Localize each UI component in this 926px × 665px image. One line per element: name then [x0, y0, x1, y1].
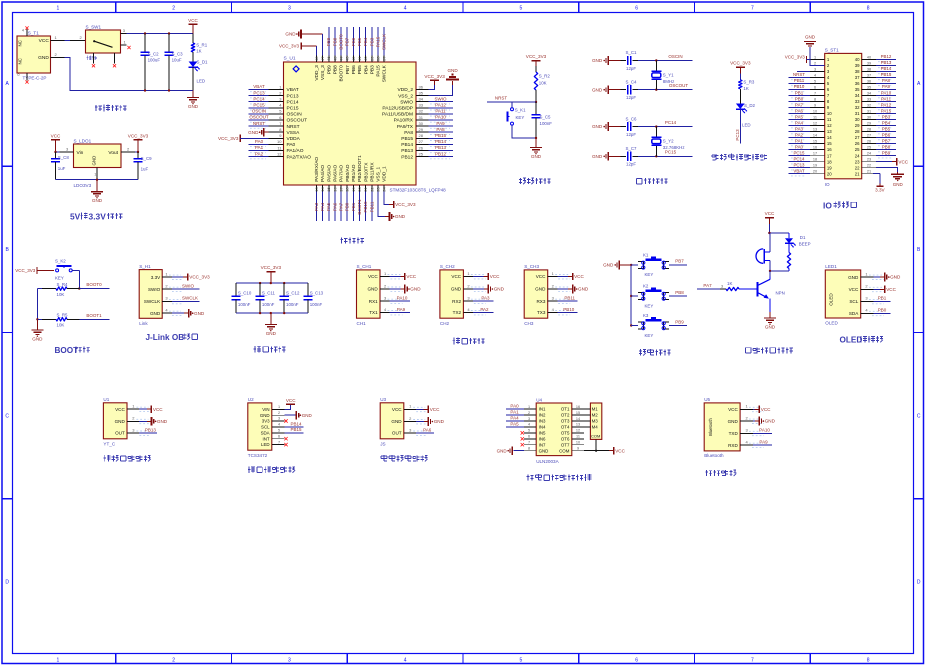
pin 38 of S_ST1 [862, 67, 876, 71]
svg-text:32: 32 [867, 103, 871, 107]
svg-text:OSCIN: OSCIN [287, 112, 303, 118]
svg-text:15: 15 [576, 411, 580, 415]
wire VCC rail top [127, 33, 194, 35]
svg-text:VDD_2: VDD_2 [398, 87, 414, 93]
svg-text:PB11: PB11 [564, 296, 575, 301]
svg-text:VCC_3V3: VCC_3V3 [424, 74, 445, 79]
pin 3 of S_H1 [162, 296, 183, 304]
power VCC of stepper [609, 447, 626, 454]
svg-text:36: 36 [419, 84, 424, 89]
net label PA15 wire at IO pin 31 [876, 108, 896, 116]
svg-text:PA10: PA10 [759, 428, 770, 433]
power VCC_3V3 at VDD_3 [279, 42, 317, 55]
svg-text:OSCOUT: OSCOUT [287, 118, 308, 124]
ground GND of power circuit [187, 91, 199, 110]
svg-text:30: 30 [419, 121, 424, 126]
title 颜色检测模块 [248, 466, 295, 473]
svg-text:18: 18 [827, 159, 832, 164]
ground GND of reset circuit [530, 138, 542, 159]
svg-text:PB6: PB6 [351, 37, 356, 46]
svg-text:PA15: PA15 [375, 36, 380, 47]
pin 12 OT5 of U4 [572, 429, 584, 433]
svg-text:VCC: VCC [188, 18, 198, 23]
power VCC of S_CH2 [473, 273, 500, 280]
capacitor S_C9 1uF [133, 152, 152, 180]
capacitor S_C10 100nF [232, 283, 252, 313]
svg-text:C: C [5, 413, 9, 419]
svg-text:PA4: PA4 [320, 202, 325, 211]
svg-text:6: 6 [814, 85, 816, 89]
pin 20 of S_ST1 [810, 170, 825, 174]
net label PB6 wire [351, 27, 356, 56]
svg-text:S_R2: S_R2 [539, 74, 551, 79]
net label PB10 wire of S_CH3 [557, 307, 577, 313]
pin 8 of S_ST1 [810, 97, 825, 101]
svg-text:S_K1: S_K1 [515, 107, 526, 112]
svg-text:16: 16 [827, 147, 832, 152]
pin 2 of S_CH1 [380, 283, 403, 291]
svg-text:32: 32 [855, 105, 860, 110]
svg-text:11: 11 [813, 115, 817, 119]
pin 37 SWCLK of U1 [382, 56, 387, 63]
svg-text:PB6: PB6 [351, 65, 357, 74]
svg-text:OUT: OUT [115, 431, 125, 436]
pin 5 of S_ST1 [810, 79, 825, 83]
pin 17 PA7/AO of U1 [339, 185, 344, 192]
svg-text:GND: GND [115, 419, 126, 424]
svg-text:TYPE-C-2P: TYPE-C-2P [23, 76, 47, 81]
svg-text:GND: GND [92, 198, 103, 203]
pin 21 of S_ST1 [862, 170, 876, 174]
net label PA2 wire of S_CH2 [473, 307, 493, 313]
svg-text:48: 48 [314, 56, 319, 61]
svg-text:31: 31 [419, 115, 424, 120]
pin 22 of S_ST1 [862, 164, 876, 168]
svg-text:SWIO: SWIO [148, 287, 161, 292]
no-connect X on U4 pin 6 [521, 437, 524, 440]
svg-text:BOOT1: BOOT1 [86, 313, 102, 318]
svg-text:33: 33 [867, 97, 871, 101]
net label PB1 wire at IO pin 7 [789, 90, 811, 98]
svg-text:PA10: PA10 [435, 115, 446, 120]
svg-text:5: 5 [528, 429, 530, 433]
net label PA3 wire [314, 192, 319, 222]
svg-text:19: 19 [813, 164, 817, 168]
svg-text:PB14: PB14 [435, 139, 447, 144]
svg-text:OUT: OUT [392, 431, 402, 436]
svg-text:3: 3 [528, 417, 530, 421]
svg-text:PB8: PB8 [882, 144, 891, 149]
power VCC of S_CH3 [557, 273, 584, 280]
svg-text:U3: U3 [380, 397, 386, 402]
wire filter top rail [236, 282, 308, 284]
svg-text:PA6: PA6 [423, 427, 432, 432]
svg-text:OSCOUT: OSCOUT [249, 115, 269, 120]
svg-text:IO: IO [825, 182, 830, 187]
svg-text:PA12: PA12 [435, 103, 446, 108]
net label PA4 wire [320, 192, 325, 222]
net label PB14 wire [428, 139, 453, 147]
no-connect X on U2 pin 6 [284, 437, 287, 440]
svg-text:BEEP: BEEP [799, 242, 811, 247]
svg-text:D: D [5, 580, 9, 586]
svg-text:1uF: 1uF [141, 167, 149, 172]
svg-text:KEY: KEY [645, 333, 654, 338]
svg-text:GND: GND [890, 275, 901, 280]
svg-text:PB15: PB15 [290, 427, 302, 432]
junction reset bottom [535, 137, 537, 139]
svg-text:GND: GND [765, 325, 776, 330]
svg-text:PB9: PB9 [882, 150, 891, 155]
svg-text:10uF: 10uF [172, 57, 182, 62]
svg-text:18: 18 [813, 158, 817, 162]
pin 4 of OLED [861, 308, 884, 316]
svg-text:INT: INT [263, 436, 270, 441]
svg-text:44: 44 [339, 56, 344, 61]
svg-text:VCC: VCC [574, 274, 584, 279]
resistor R base 1K [720, 281, 758, 291]
svg-text:13: 13 [827, 129, 832, 134]
pin 6 of U2 [272, 434, 285, 438]
svg-text:GND: GND [592, 154, 603, 159]
module U1 body [103, 397, 127, 446]
svg-text:34: 34 [419, 97, 424, 102]
svg-text:VCC: VCC [406, 274, 416, 279]
pin 45 PB8 of U1 [332, 56, 337, 63]
power VCC of U5 [753, 406, 771, 413]
svg-text:10: 10 [277, 139, 282, 144]
net label PB7 wire at IO pin 26 [876, 138, 896, 146]
net label PA9 wire at IO pin 35 [876, 84, 896, 92]
svg-text:VIN: VIN [262, 407, 269, 412]
svg-text:40: 40 [867, 55, 871, 59]
svg-text:3.3V: 3.3V [89, 212, 107, 222]
svg-text:22: 22 [855, 165, 860, 170]
net label OSCIN wire [638, 54, 692, 62]
net label PA9 wire of S_CH1 [390, 307, 410, 313]
svg-text:VSS_3: VSS_3 [320, 65, 326, 80]
svg-text:29: 29 [419, 127, 424, 132]
svg-text:S_CH1: S_CH1 [357, 264, 372, 269]
svg-text:PB14: PB14 [401, 142, 413, 148]
svg-text:NC: NC [18, 40, 23, 46]
svg-text:GND: GND [38, 55, 49, 61]
svg-text:S_LDO1: S_LDO1 [74, 138, 92, 143]
svg-text:PB15: PB15 [401, 136, 413, 142]
svg-text:U4: U4 [536, 397, 542, 402]
svg-text:PB5: PB5 [357, 37, 362, 46]
svg-text:PB9: PB9 [326, 65, 332, 74]
net label PB11 wire at IO pin 5 [789, 78, 811, 86]
svg-text:32.768KHz: 32.768KHz [663, 145, 685, 150]
svg-text:S_Y2: S_Y2 [663, 138, 674, 143]
pin 3 of U5 [740, 428, 764, 436]
svg-text:12pF: 12pF [626, 66, 636, 71]
header S_ST1 IO port body [825, 48, 862, 187]
pin 9 COM of U4 [572, 447, 584, 451]
junction on VCC rail at C3 [168, 32, 170, 34]
pin 2 of U3 [404, 416, 427, 424]
svg-text:PB5: PB5 [882, 126, 891, 131]
net label PB7 wire of K1 [669, 259, 687, 265]
svg-text:PA6/AO: PA6/AO [333, 165, 339, 182]
svg-text:PB7: PB7 [675, 259, 684, 264]
svg-text:PA6: PA6 [795, 108, 804, 113]
resistor S_R4 10K [42, 282, 79, 297]
svg-text:PA1: PA1 [795, 138, 804, 143]
svg-text:GND: GND [578, 287, 589, 292]
svg-text:PA12: PA12 [881, 102, 892, 107]
svg-text:YT_C: YT_C [103, 441, 115, 446]
power VCC_3V3 at VDDA pin 9 [218, 135, 269, 142]
capacitor S_C11 100nF [256, 283, 276, 313]
svg-text:12pF: 12pF [626, 95, 636, 100]
svg-text:PC14: PC14 [794, 156, 806, 161]
pin 2 GND of S_T1 [51, 52, 65, 58]
ground GND at VSSA pin 8 [248, 128, 268, 137]
svg-text:LED1: LED1 [825, 264, 837, 269]
svg-text:26: 26 [867, 139, 871, 143]
net label PB8 wire [332, 27, 337, 56]
wire alarm top rail [768, 224, 789, 234]
pin 2 of OLED [861, 284, 884, 292]
svg-text:39: 39 [855, 63, 860, 68]
svg-text:SWCLK: SWCLK [382, 64, 388, 82]
resistor under LED D1 [787, 243, 790, 271]
svg-text:45: 45 [332, 56, 337, 61]
svg-text:J-Link OB: J-Link OB [146, 333, 185, 342]
svg-text:46: 46 [326, 56, 331, 61]
pin 1 of S_CH3 [548, 271, 571, 279]
net label PB12 wire [428, 151, 453, 159]
svg-text:40: 40 [363, 56, 368, 61]
net label PB13 wire [428, 145, 453, 153]
svg-text:RX1: RX1 [369, 299, 378, 304]
svg-text:S_C3: S_C3 [172, 51, 184, 56]
net label PB9 wire of K3 [669, 319, 687, 325]
ground GND for S_C1 [592, 56, 620, 65]
svg-text:BOOT0: BOOT0 [339, 34, 344, 50]
net label VBAT wire [249, 84, 269, 92]
net label SWCLK wire [172, 296, 200, 302]
key K1 button [638, 252, 669, 277]
pin 14 OT3 of U4 [572, 417, 584, 421]
net label BOOT0 wire [339, 27, 344, 56]
title J-Link OB接口 [146, 333, 198, 342]
no-connect X on S_T1 bottom pin [25, 80, 28, 83]
net label PA11 wire [428, 109, 453, 117]
svg-text:S_R4: S_R4 [57, 282, 69, 287]
pin 43 PB7 of U1 [345, 56, 350, 63]
svg-text:100uF: 100uF [148, 57, 161, 62]
svg-text:NC: NC [18, 58, 23, 64]
net label PA1 wire of U4 [506, 410, 524, 415]
svg-text:S_ST1: S_ST1 [825, 48, 839, 53]
svg-text:PB12: PB12 [881, 54, 892, 59]
svg-text:2: 2 [172, 6, 175, 12]
svg-text:CH3: CH3 [524, 321, 534, 326]
svg-text:38: 38 [867, 67, 871, 71]
pin 12 PA2/TX/AO of U1 [269, 151, 284, 156]
svg-text:20: 20 [813, 170, 817, 174]
wire T1 VCC to SW1 [65, 40, 71, 42]
svg-text:PB7: PB7 [345, 37, 350, 46]
net label PB3 wire [369, 27, 374, 56]
svg-text:OT4: OT4 [561, 425, 570, 430]
svg-text:5V: 5V [70, 212, 81, 222]
power VCC of S_CH1 [390, 273, 417, 280]
svg-text:PA6: PA6 [332, 202, 337, 211]
svg-text:100nF: 100nF [238, 302, 251, 307]
svg-text:4: 4 [22, 29, 24, 33]
net label PB15 wire [428, 133, 453, 141]
svg-text:NRST: NRST [253, 121, 266, 126]
svg-text:PB8: PB8 [333, 65, 339, 74]
svg-text:17: 17 [813, 152, 817, 156]
svg-text:7: 7 [278, 440, 280, 444]
svg-text:2: 2 [528, 411, 530, 415]
svg-text:OT2: OT2 [561, 413, 570, 418]
svg-text:PB3: PB3 [370, 65, 376, 74]
wire VCC to Vin [54, 151, 59, 153]
net label PA9 wire [428, 121, 453, 129]
ground GND of alarm [764, 312, 776, 330]
svg-text:7: 7 [528, 441, 530, 445]
svg-text:27: 27 [419, 139, 424, 144]
svg-text:PB9: PB9 [326, 37, 331, 46]
junction bottom rail at C2 [144, 89, 146, 91]
svg-text:GND: GND [728, 419, 739, 424]
pin 14 PA4/AO of U1 [320, 185, 325, 192]
wire stub IO pin 3 [797, 71, 810, 73]
pin 15 OT2 of U4 [572, 411, 584, 415]
net label PA4 wire at IO pin 12 [789, 120, 811, 128]
svg-text:GND: GND [157, 419, 168, 424]
svg-text:37: 37 [867, 73, 871, 77]
svg-text:GND: GND [805, 34, 816, 39]
svg-text:VCC: VCC [886, 287, 896, 292]
svg-text:PA0: PA0 [287, 142, 296, 148]
svg-text:VCC_3V3: VCC_3V3 [15, 268, 36, 273]
svg-text:2: 2 [278, 411, 280, 415]
pin 1 IN1 of U4 [524, 405, 536, 409]
svg-text:GND: GND [367, 287, 378, 292]
svg-text:PA0: PA0 [255, 139, 264, 144]
svg-text:4: 4 [404, 658, 407, 664]
svg-text:IN3: IN3 [539, 419, 546, 424]
net label PC13 wire [249, 90, 269, 98]
svg-text:GND: GND [893, 182, 904, 187]
power VCC_3V3 of run LED [730, 61, 751, 74]
pin 33 PA12/USB/DP of U1 [416, 103, 428, 108]
pin 4 of S_CH3 [548, 307, 571, 315]
svg-text:VDD_1: VDD_1 [382, 166, 388, 182]
net label PB10 wire at IO pin 6 [789, 84, 811, 92]
crystal S_Y1 8MHz [651, 61, 674, 90]
svg-text:PA0: PA0 [795, 144, 804, 149]
svg-text:PA7: PA7 [703, 283, 712, 288]
svg-text:VCC_3V3: VCC_3V3 [279, 44, 300, 49]
LED S_D2 [736, 103, 756, 127]
svg-text:TX2: TX2 [453, 310, 462, 315]
net label PB0 wire of OLED [874, 308, 891, 314]
ground GND at VSS_2 [428, 68, 459, 96]
pin 24 of S_ST1 [862, 152, 876, 156]
pin 4 of S_CH1 [380, 307, 403, 315]
svg-text:Bluetooth: Bluetooth [704, 453, 724, 458]
junction LDO gnd [96, 179, 98, 181]
svg-text:23: 23 [867, 158, 871, 162]
net label PA6 wire at IO pin 10 [789, 108, 811, 116]
svg-text:VCC_3V3: VCC_3V3 [261, 265, 282, 270]
net label PB9 wire [326, 27, 331, 56]
svg-text:PA11: PA11 [435, 109, 446, 114]
svg-text:GND: GND [497, 448, 508, 453]
ground GND of OLED [874, 273, 901, 282]
net label PB0 wire [345, 192, 350, 222]
svg-text:PA8: PA8 [404, 130, 413, 136]
net label NRST wire [249, 121, 269, 129]
pin 4 of S_ST1 [810, 73, 825, 77]
title 复位电路 [519, 178, 551, 185]
svg-text:PC15: PC15 [794, 150, 806, 155]
power VCC of alarm [765, 211, 775, 224]
svg-text:28: 28 [419, 133, 424, 138]
pin 5 OSCIN of U1 [269, 109, 284, 114]
net label PA9 wire of U5 [753, 440, 772, 446]
svg-text:PA2: PA2 [795, 132, 804, 137]
svg-text:PA4: PA4 [510, 416, 519, 421]
pin 8 GND of U4 [524, 447, 536, 451]
svg-text:12pF: 12pF [626, 132, 636, 137]
net label PA12 wire [428, 103, 453, 111]
capacitor S_C8 1uF [51, 152, 69, 180]
svg-text:S_C2: S_C2 [148, 51, 160, 56]
svg-text:GND: GND [592, 58, 603, 63]
net label PB11 wire of S_CH3 [557, 296, 577, 302]
svg-text:14: 14 [576, 417, 580, 421]
svg-text:NRST: NRST [793, 72, 805, 77]
svg-text:1uF: 1uF [58, 166, 66, 171]
svg-text:25: 25 [419, 151, 424, 156]
svg-text:VCC: VCC [286, 398, 296, 403]
svg-text:PB0: PB0 [345, 202, 350, 211]
ground GND at VSS_3 [285, 30, 322, 56]
svg-text:PB13: PB13 [435, 145, 447, 150]
svg-text:PA10: PA10 [881, 90, 892, 95]
pin 1 VBAT of U1 [269, 84, 284, 89]
svg-text:GND: GND [603, 263, 614, 268]
svg-text:25: 25 [867, 145, 871, 149]
net label PB1 wire of OLED [874, 296, 891, 302]
svg-text:PA3: PA3 [314, 202, 319, 211]
svg-text:17: 17 [339, 187, 344, 192]
svg-text:SWIO: SWIO [182, 284, 194, 289]
svg-text:3: 3 [288, 658, 291, 664]
title 5V转3.3V电路 [70, 212, 122, 222]
ground GND at IO pin 2 [804, 34, 825, 65]
svg-text:Bluetooth: Bluetooth [708, 417, 713, 435]
svg-text:PB12: PB12 [401, 154, 413, 160]
svg-text:3: 3 [814, 67, 816, 71]
svg-text:PB15: PB15 [435, 133, 447, 138]
svg-text:VDD_3: VDD_3 [314, 65, 320, 81]
svg-text:14: 14 [813, 133, 817, 137]
svg-text:35: 35 [855, 87, 860, 92]
svg-text:2: 2 [172, 658, 175, 664]
svg-text:D: D [917, 580, 921, 586]
pin 20 PB2/BOOT1 of U1 [357, 185, 362, 192]
